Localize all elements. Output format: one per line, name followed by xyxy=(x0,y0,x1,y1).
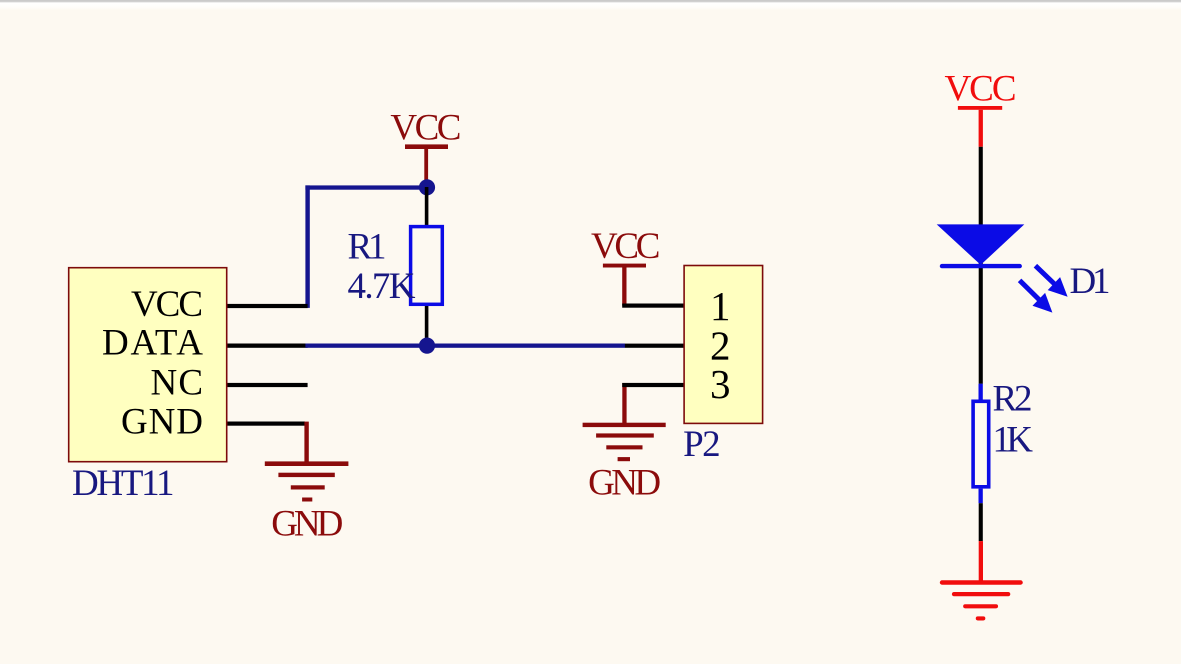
svg-text:VCC: VCC xyxy=(945,69,1017,110)
svg-text:VCC: VCC xyxy=(390,107,461,148)
svg-text:1K: 1K xyxy=(993,420,1034,461)
svg-text:D1: D1 xyxy=(1070,261,1111,302)
svg-text:R1: R1 xyxy=(348,227,387,268)
svg-text:4.7K: 4.7K xyxy=(348,266,416,307)
svg-text:NC: NC xyxy=(151,363,204,404)
svg-text:GND: GND xyxy=(588,463,661,504)
svg-text:DHT11: DHT11 xyxy=(72,463,175,504)
svg-text:R2: R2 xyxy=(993,379,1033,420)
svg-text:3: 3 xyxy=(710,361,731,407)
svg-text:VCC: VCC xyxy=(131,284,203,325)
svg-text:P2: P2 xyxy=(683,424,721,465)
svg-text:GND: GND xyxy=(271,503,343,544)
svg-text:DATA: DATA xyxy=(102,322,203,363)
svg-text:VCC: VCC xyxy=(591,226,661,267)
svg-text:GND: GND xyxy=(121,402,203,443)
